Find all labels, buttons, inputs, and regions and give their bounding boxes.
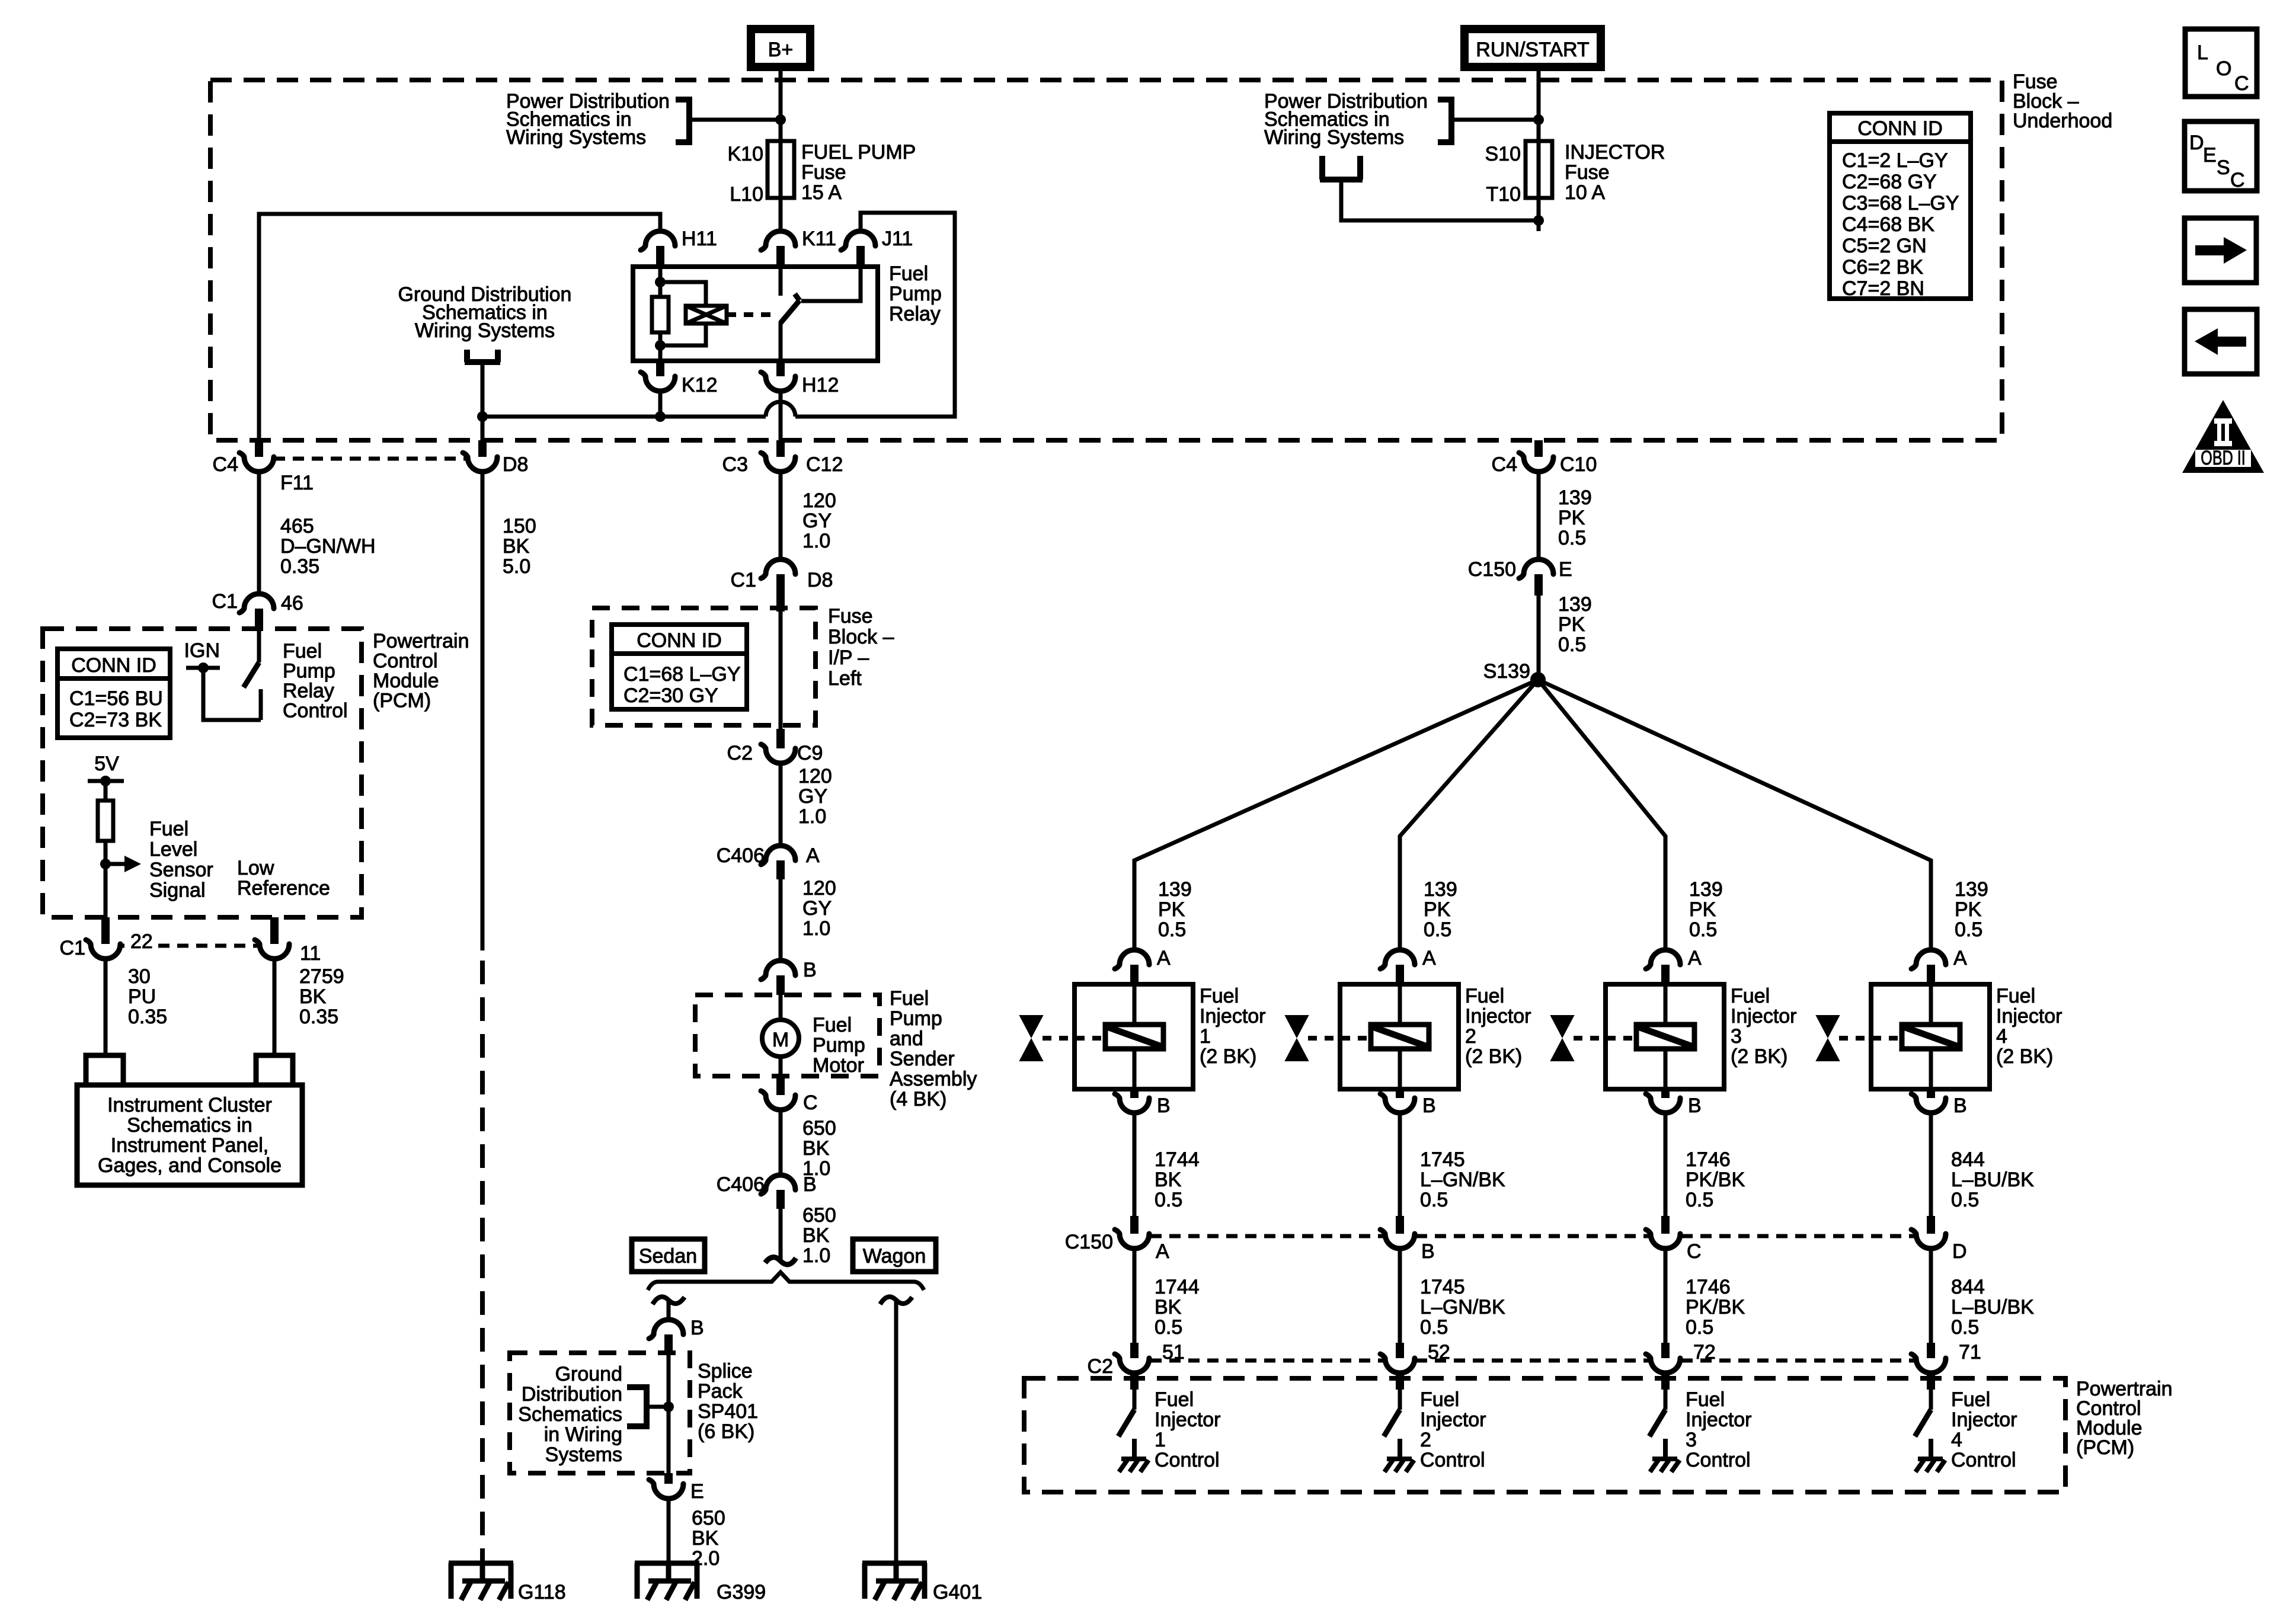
connector C1/D8 into fuse block IP xyxy=(761,559,795,578)
svg-text:Pack: Pack xyxy=(698,1380,743,1403)
svg-text:Block –: Block – xyxy=(828,626,894,648)
junction dot K12 link xyxy=(655,411,666,422)
svg-text:Schematics: Schematics xyxy=(518,1403,622,1426)
icon DESC xyxy=(2185,121,2257,191)
svg-text:K10: K10 xyxy=(728,143,764,165)
svg-text:Reference: Reference xyxy=(237,877,330,900)
svg-text:K11: K11 xyxy=(802,228,836,250)
svg-text:465: 465 xyxy=(280,515,314,537)
svg-text:H12: H12 xyxy=(802,374,839,396)
fuel injector 1 control driver switch xyxy=(1133,1390,1137,1410)
wire bracket to RUN/START wire xyxy=(1451,118,1539,122)
ground G118 xyxy=(449,1563,513,1600)
fuel injector 4 valve xyxy=(1817,1016,1839,1061)
svg-text:Gages, and Console: Gages, and Console xyxy=(98,1154,282,1177)
svg-text:A: A xyxy=(1953,947,1967,969)
svg-text:S139: S139 xyxy=(1483,660,1530,683)
svg-text:Fuel: Fuel xyxy=(890,987,929,1010)
wire through splice pack xyxy=(667,1353,671,1473)
svg-text:Signal: Signal xyxy=(149,879,206,902)
svg-text:C10: C10 xyxy=(1560,453,1597,476)
connector B sedan xyxy=(649,1320,683,1339)
svg-text:BK: BK xyxy=(802,1137,830,1160)
ground G401 xyxy=(862,1563,927,1600)
wire 1744 BK upper xyxy=(1133,1112,1137,1216)
svg-text:RUN/START: RUN/START xyxy=(1476,39,1589,61)
connector 11 xyxy=(270,917,279,944)
svg-text:Injector: Injector xyxy=(1420,1409,1486,1431)
IGN terminal tick xyxy=(186,666,220,670)
svg-text:BK: BK xyxy=(299,985,327,1008)
wire S139 branch to injector 1 xyxy=(1134,680,1538,950)
svg-text:C: C xyxy=(803,1092,818,1114)
CONN ID table underhood xyxy=(1830,113,1971,299)
svg-text:0.35: 0.35 xyxy=(280,555,319,578)
svg-text:PK/BK: PK/BK xyxy=(1686,1296,1745,1318)
svg-text:A: A xyxy=(1156,1240,1169,1263)
svg-text:B: B xyxy=(1422,1094,1436,1117)
svg-text:(2 BK): (2 BK) xyxy=(1996,1045,2053,1068)
connector B injector 4 xyxy=(1927,1089,1935,1098)
connector C2 row pin 72 xyxy=(1661,1343,1670,1358)
Sedan option box xyxy=(632,1239,705,1272)
svg-text:0.5: 0.5 xyxy=(1155,1189,1182,1211)
option split hook wagon xyxy=(880,1297,912,1304)
svg-text:C9: C9 xyxy=(797,742,823,764)
svg-text:1744: 1744 xyxy=(1155,1276,1200,1298)
svg-text:139: 139 xyxy=(1424,878,1457,901)
svg-text:E: E xyxy=(1559,558,1572,581)
svg-text:L–BU/BK: L–BU/BK xyxy=(1951,1296,2034,1318)
connector C2 row pin 71 xyxy=(1927,1343,1935,1358)
svg-text:SP401: SP401 xyxy=(698,1400,758,1423)
svg-text:OBD II: OBD II xyxy=(2201,447,2245,469)
svg-text:0.5: 0.5 xyxy=(1558,633,1586,656)
svg-text:139: 139 xyxy=(1158,878,1192,901)
svg-text:FUEL PUMP: FUEL PUMP xyxy=(801,141,916,164)
svg-text:Pump: Pump xyxy=(813,1034,865,1057)
connector B fuel pump xyxy=(761,961,795,980)
connector C150 row D xyxy=(1927,1216,1935,1234)
PCM dashed box right xyxy=(1024,1378,2065,1492)
fuse K10/L10 FUEL PUMP 15A xyxy=(779,120,783,231)
relay switch xyxy=(779,267,783,296)
svg-text:1: 1 xyxy=(1200,1025,1211,1048)
svg-text:C1=2 L–GY: C1=2 L–GY xyxy=(1842,149,1948,172)
svg-text:C4: C4 xyxy=(1492,453,1517,476)
svg-text:in Wiring: in Wiring xyxy=(544,1423,622,1446)
svg-text:Ground: Ground xyxy=(555,1363,622,1385)
connector C4/F11 xyxy=(255,440,263,457)
svg-text:1: 1 xyxy=(1155,1429,1166,1451)
splice pack dashed box xyxy=(510,1353,690,1473)
svg-text:650: 650 xyxy=(802,1117,836,1140)
svg-text:Motor: Motor xyxy=(813,1054,864,1077)
svg-text:G401: G401 xyxy=(933,1581,982,1603)
wire 1744 BK lower xyxy=(1133,1249,1137,1343)
connector C3/C12 xyxy=(776,440,785,457)
ground distribution bracket splice xyxy=(627,1387,647,1426)
svg-text:Control: Control xyxy=(1686,1449,1751,1471)
svg-text:and: and xyxy=(890,1028,923,1050)
wire 1746 PK/BK upper xyxy=(1664,1112,1668,1216)
PCM dashed box left xyxy=(43,629,362,917)
svg-text:C1: C1 xyxy=(731,569,756,591)
wire bracket to splice xyxy=(647,1405,669,1409)
svg-text:INJECTOR: INJECTOR xyxy=(1565,141,1665,164)
svg-text:D: D xyxy=(2189,132,2204,154)
wire 1746 PK/BK lower xyxy=(1664,1249,1668,1343)
svg-text:0.5: 0.5 xyxy=(1558,527,1586,549)
svg-text:Control: Control xyxy=(1951,1449,2016,1471)
svg-text:Level: Level xyxy=(149,838,197,861)
junction dot sensor signal xyxy=(100,859,111,869)
ground distribution under-bracket xyxy=(465,350,500,362)
svg-text:C12: C12 xyxy=(806,453,843,476)
wire 120 GY to C406 xyxy=(779,763,783,846)
svg-text:Fuse: Fuse xyxy=(1565,161,1610,184)
fuel injector 4 box xyxy=(1871,984,1990,1089)
wire 1745 L–GN/BK lower xyxy=(1398,1249,1402,1343)
fuel injector 4 control driver switch xyxy=(1929,1390,1933,1410)
svg-text:PK: PK xyxy=(1689,898,1716,921)
svg-text:BK: BK xyxy=(1155,1169,1182,1191)
svg-text:0.5: 0.5 xyxy=(1951,1189,1979,1211)
svg-text:844: 844 xyxy=(1951,1276,1985,1298)
wire B+ feed xyxy=(779,67,783,143)
fuel injector 1 valve xyxy=(1020,1016,1043,1061)
connector C4/C10 xyxy=(1534,440,1543,457)
svg-text:PK/BK: PK/BK xyxy=(1686,1169,1745,1191)
svg-text:D–GN/WH: D–GN/WH xyxy=(280,535,376,558)
svg-text:S10: S10 xyxy=(1485,143,1521,165)
power distribution reference bracket left xyxy=(676,100,689,142)
svg-text:Systems: Systems xyxy=(545,1443,622,1466)
svg-text:139: 139 xyxy=(1689,878,1723,901)
svg-text:30: 30 xyxy=(128,965,151,988)
svg-text:CONN ID: CONN ID xyxy=(637,629,722,652)
svg-text:BK: BK xyxy=(802,1224,830,1247)
svg-text:Schematics in: Schematics in xyxy=(127,1114,252,1137)
svg-text:0.5: 0.5 xyxy=(1420,1189,1448,1211)
svg-text:K12: K12 xyxy=(682,374,718,396)
svg-text:J11: J11 xyxy=(882,228,913,250)
svg-text:Sender: Sender xyxy=(890,1048,955,1070)
Wagon option box xyxy=(853,1239,936,1272)
fuel injector 2 box xyxy=(1340,984,1459,1089)
junction dot B+ / power distribution xyxy=(775,114,786,125)
wire S139 branch to injector 4 xyxy=(1538,680,1931,950)
Fuse Block - Underhood dashed box xyxy=(210,80,2002,440)
svg-text:Wiring Systems: Wiring Systems xyxy=(1264,126,1404,149)
wire to G399 xyxy=(667,1498,671,1563)
connector K12 xyxy=(656,361,664,376)
svg-text:(PCM): (PCM) xyxy=(373,690,431,712)
CONN ID table IP xyxy=(612,625,747,709)
svg-text:A: A xyxy=(1157,947,1171,969)
fuel injector 3 control driver switch xyxy=(1664,1390,1668,1410)
svg-text:C3: C3 xyxy=(722,453,748,476)
svg-text:139: 139 xyxy=(1558,486,1592,509)
svg-text:22: 22 xyxy=(130,930,153,953)
wire 1745 L–GN/BK upper xyxy=(1398,1112,1402,1216)
connector C150 row C xyxy=(1661,1216,1670,1234)
junction dot 5V xyxy=(100,776,111,786)
splice S139 xyxy=(1530,672,1546,687)
wire 150 BK to G118 solid part xyxy=(481,472,485,950)
fuel injector 3 coil xyxy=(1664,984,1668,1025)
svg-text:C1: C1 xyxy=(60,937,85,959)
icon arrow right xyxy=(2185,218,2256,283)
svg-text:L10: L10 xyxy=(730,183,763,206)
svg-text:B: B xyxy=(1953,1094,1967,1117)
wire K12 to ground link xyxy=(658,391,663,417)
svg-text:Fuel: Fuel xyxy=(1200,985,1239,1007)
svg-text:1745: 1745 xyxy=(1420,1276,1465,1298)
svg-text:(PCM): (PCM) xyxy=(2076,1436,2134,1459)
svg-text:BK: BK xyxy=(692,1527,719,1550)
svg-text:1.0: 1.0 xyxy=(798,805,826,828)
svg-text:120: 120 xyxy=(798,765,832,788)
wire 30 PU 0.35 xyxy=(104,958,108,1055)
ground link wire with hop over H12 wire xyxy=(482,402,795,417)
wire 844 L–BU/BK upper xyxy=(1929,1112,1933,1216)
wire 139 PK from C10 xyxy=(1537,472,1541,559)
connector K11 xyxy=(761,231,795,250)
connector row dotted line C4-D8 xyxy=(274,457,467,461)
junction dot resistor bottom xyxy=(655,340,666,351)
wire to S139 xyxy=(1537,596,1541,680)
junction dot splice SP401 xyxy=(663,1401,674,1412)
wire through fuse block IP xyxy=(779,627,783,729)
connector A injector 4 xyxy=(1911,950,1946,969)
svg-text:139: 139 xyxy=(1955,878,1988,901)
svg-text:3: 3 xyxy=(1731,1025,1742,1048)
connector row dotted line C1 xyxy=(120,944,260,948)
svg-text:650: 650 xyxy=(692,1507,725,1529)
svg-text:C150: C150 xyxy=(1468,558,1516,581)
relay coil xyxy=(660,282,706,345)
svg-text:Control: Control xyxy=(1155,1449,1220,1471)
svg-text:C: C xyxy=(1687,1240,1702,1263)
svg-text:(6 BK): (6 BK) xyxy=(698,1420,754,1443)
svg-text:B: B xyxy=(1421,1240,1435,1263)
svg-text:C2: C2 xyxy=(727,742,753,764)
svg-text:PK: PK xyxy=(1558,507,1585,529)
svg-text:Sedan: Sedan xyxy=(639,1245,697,1267)
svg-text:B+: B+ xyxy=(768,39,794,61)
svg-text:Fuel: Fuel xyxy=(1996,985,2035,1007)
svg-text:Module: Module xyxy=(373,670,439,692)
terminal B+ box xyxy=(751,29,810,67)
power distribution reference bracket right xyxy=(1438,100,1451,142)
relay enclosure right side via J11 xyxy=(795,213,955,417)
svg-text:0.5: 0.5 xyxy=(1424,918,1451,941)
5V terminal tick xyxy=(88,779,124,783)
svg-text:L–BU/BK: L–BU/BK xyxy=(1951,1169,2034,1191)
svg-text:Underhood: Underhood xyxy=(2013,110,2112,132)
wire 2759 BK 0.35 xyxy=(273,958,277,1055)
connector C2 row pin 51 xyxy=(1130,1343,1139,1358)
svg-text:C1: C1 xyxy=(212,590,238,613)
connector J11 xyxy=(841,231,875,250)
svg-text:0.35: 0.35 xyxy=(299,1006,338,1028)
svg-text:Wagon: Wagon xyxy=(863,1245,926,1267)
svg-text:Control: Control xyxy=(1420,1449,1485,1471)
svg-text:0.5: 0.5 xyxy=(1155,1316,1182,1339)
svg-text:Powertrain: Powertrain xyxy=(373,630,469,652)
svg-text:BK: BK xyxy=(1155,1296,1182,1318)
svg-text:C4=68 BK: C4=68 BK xyxy=(1842,213,1934,236)
svg-text:Injector: Injector xyxy=(1686,1409,1752,1431)
svg-text:I/P –: I/P – xyxy=(828,646,869,669)
svg-text:844: 844 xyxy=(1951,1148,1985,1171)
svg-text:Instrument Cluster: Instrument Cluster xyxy=(107,1094,272,1116)
svg-text:2: 2 xyxy=(1420,1429,1431,1451)
svg-text:10 A: 10 A xyxy=(1565,181,1605,204)
svg-text:1.0: 1.0 xyxy=(802,917,830,940)
svg-text:0.5: 0.5 xyxy=(1158,918,1186,941)
svg-text:D8: D8 xyxy=(807,569,833,591)
connector C fuel pump xyxy=(776,1076,785,1095)
svg-text:Fuel: Fuel xyxy=(1420,1388,1459,1411)
svg-text:Pump: Pump xyxy=(889,283,942,305)
svg-text:C406: C406 xyxy=(717,1173,765,1196)
wire 120 GY from C12 xyxy=(779,472,783,559)
connector A injector 2 xyxy=(1380,950,1415,969)
Fuse Block IP Left dashed box xyxy=(592,608,816,725)
svg-text:E: E xyxy=(690,1480,704,1503)
svg-text:IGN: IGN xyxy=(184,639,220,662)
svg-text:Injector: Injector xyxy=(1465,1005,1531,1028)
relay switch to J11 link xyxy=(801,267,861,301)
wire to fuel pump B xyxy=(779,879,783,961)
svg-text:150: 150 xyxy=(503,515,536,537)
svg-text:11: 11 xyxy=(300,942,321,965)
connector B injector 3 xyxy=(1661,1089,1670,1098)
svg-text:4: 4 xyxy=(1951,1429,1962,1451)
svg-text:Injector: Injector xyxy=(1200,1005,1266,1028)
instrument cluster reference box xyxy=(77,1085,302,1185)
connector H11 xyxy=(641,231,675,250)
svg-text:C4: C4 xyxy=(213,453,238,476)
svg-text:B: B xyxy=(1688,1094,1702,1117)
wire bracket stem to link xyxy=(481,362,485,417)
svg-text:Control: Control xyxy=(373,650,438,673)
svg-text:Low: Low xyxy=(237,857,274,879)
svg-text:650: 650 xyxy=(802,1204,836,1227)
svg-text:S: S xyxy=(2217,156,2230,179)
svg-text:Wiring Systems: Wiring Systems xyxy=(415,319,555,342)
svg-text:46: 46 xyxy=(281,592,303,614)
svg-text:Injector: Injector xyxy=(1996,1005,2062,1028)
svg-text:139: 139 xyxy=(1558,593,1592,616)
svg-text:0.35: 0.35 xyxy=(128,1006,167,1028)
fuel level sensor signal arrow xyxy=(105,862,124,866)
fuel injector 2 control driver switch xyxy=(1398,1390,1402,1410)
svg-text:Fuel: Fuel xyxy=(813,1014,852,1036)
connector C1/22 xyxy=(101,917,110,944)
svg-text:C: C xyxy=(2234,72,2249,95)
connector C150 row A xyxy=(1130,1216,1139,1234)
svg-text:Injector: Injector xyxy=(1731,1005,1797,1028)
svg-text:L–GN/BK: L–GN/BK xyxy=(1420,1296,1505,1318)
wire 150 BK dashed continuation xyxy=(480,961,485,1563)
svg-text:0.5: 0.5 xyxy=(1951,1316,1979,1339)
svg-text:(2 BK): (2 BK) xyxy=(1731,1045,1787,1068)
svg-text:C6=2 BK: C6=2 BK xyxy=(1842,256,1923,279)
svg-text:GY: GY xyxy=(798,785,827,808)
svg-text:PK: PK xyxy=(1955,898,1982,921)
svg-text:L–GN/BK: L–GN/BK xyxy=(1420,1169,1505,1191)
svg-text:120: 120 xyxy=(802,489,836,512)
connector C1/46 xyxy=(239,594,274,613)
instrument cluster terminal left xyxy=(86,1055,123,1085)
wire wagon branch to G401 xyxy=(894,1300,898,1563)
svg-text:Fuel: Fuel xyxy=(889,263,928,285)
svg-text:H11: H11 xyxy=(682,228,717,250)
svg-text:C1=68 L–GY: C1=68 L–GY xyxy=(623,663,741,686)
svg-text:PU: PU xyxy=(128,985,156,1008)
icon arrow left xyxy=(2185,309,2257,374)
svg-text:C5=2 GN: C5=2 GN xyxy=(1842,235,1927,257)
wire S139 branch to injector 2 xyxy=(1400,680,1538,950)
option split hook main xyxy=(765,1257,796,1265)
svg-text:1745: 1745 xyxy=(1420,1148,1465,1171)
connector C406/B xyxy=(761,1175,795,1194)
connector C406/A xyxy=(761,846,795,865)
fuel pump and sender dashed box xyxy=(695,995,880,1076)
svg-text:L: L xyxy=(2197,41,2208,64)
connector C2 row pin 52 xyxy=(1396,1343,1404,1358)
svg-text:C: C xyxy=(2230,169,2245,191)
svg-text:B: B xyxy=(1157,1094,1171,1117)
svg-text:C7=2 BN: C7=2 BN xyxy=(1842,277,1924,300)
svg-text:1746: 1746 xyxy=(1686,1276,1731,1298)
wire H12 down to C3 xyxy=(779,391,783,440)
svg-text:Wiring Systems: Wiring Systems xyxy=(506,126,646,149)
fuel injector 4 coil xyxy=(1929,984,1933,1025)
svg-text:Fuel: Fuel xyxy=(1951,1388,1990,1411)
instrument cluster terminal right xyxy=(256,1055,293,1085)
wire S139 branch to injector 3 xyxy=(1538,680,1665,950)
svg-text:Left: Left xyxy=(828,667,862,690)
svg-text:(2 BK): (2 BK) xyxy=(1200,1045,1256,1068)
junction dot above injector fuse xyxy=(1533,114,1544,125)
svg-text:GY: GY xyxy=(802,510,832,532)
svg-text:Fuel: Fuel xyxy=(1155,1388,1194,1411)
svg-text:C406: C406 xyxy=(717,844,765,867)
svg-text:Injector: Injector xyxy=(1951,1409,2017,1431)
svg-text:Fuel: Fuel xyxy=(149,818,188,840)
svg-text:M: M xyxy=(772,1029,789,1051)
svg-text:Relay: Relay xyxy=(889,303,941,325)
svg-text:T10: T10 xyxy=(1486,183,1521,206)
svg-text:Splice: Splice xyxy=(698,1360,753,1382)
wire 650 BK to C406 B xyxy=(779,1109,783,1176)
svg-text:Fuel: Fuel xyxy=(283,640,322,662)
svg-text:Relay: Relay xyxy=(283,680,334,702)
svg-text:1.0: 1.0 xyxy=(802,530,830,552)
fuel injector 2 valve xyxy=(1285,1016,1308,1061)
svg-text:Fuel: Fuel xyxy=(1465,985,1504,1007)
svg-text:120: 120 xyxy=(802,877,836,900)
svg-text:G118: G118 xyxy=(518,1581,566,1603)
connector row dotted line C150 xyxy=(1150,1234,1384,1238)
svg-text:Fuse: Fuse xyxy=(828,605,873,628)
power distribution under-bracket right xyxy=(1320,156,1363,180)
svg-text:C2: C2 xyxy=(1088,1355,1113,1378)
